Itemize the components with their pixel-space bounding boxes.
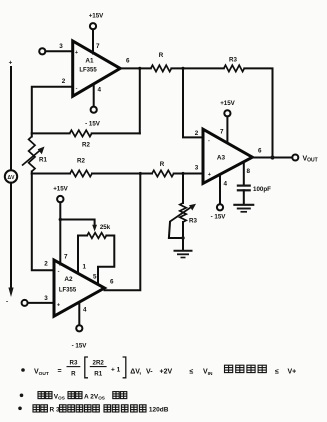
note 1 tail xyxy=(275,369,296,376)
svg-text:V+: V+ xyxy=(288,369,297,376)
wire A3 pin 2 xyxy=(183,68,203,137)
note 3 bullet xyxy=(18,407,22,411)
svg-text:≤: ≤ xyxy=(275,369,279,376)
junction A3 inverting node xyxy=(181,67,184,70)
arrow on input rail xyxy=(8,288,13,298)
svg-text:V-: V- xyxy=(146,369,153,376)
note 1 Chinese 共模电压 xyxy=(225,365,267,372)
svg-text:A3: A3 xyxy=(217,155,226,162)
svg-text:R3: R3 xyxy=(189,218,197,225)
terminal A1 V+ xyxy=(90,23,96,29)
ground (capacitor) xyxy=(233,205,254,212)
svg-text:A2: A2 xyxy=(64,276,73,283)
wire A3 pin 4 xyxy=(219,177,221,205)
svg-text:2: 2 xyxy=(44,261,48,268)
wire R to R3 xyxy=(171,67,223,69)
wire capacitor to ground xyxy=(243,190,245,204)
note 2 Chinese 调节 xyxy=(113,392,127,399)
wire top feedback line xyxy=(92,132,140,134)
svg-text:2: 2 xyxy=(195,130,199,137)
terminal A3 V+ xyxy=(224,110,230,116)
wire A2 output xyxy=(105,174,141,291)
svg-text:+15V: +15V xyxy=(220,100,235,107)
svg-text:R: R xyxy=(159,52,164,59)
terminal VOUT xyxy=(292,155,298,161)
wire 25k right lead to pin 5 xyxy=(98,236,114,285)
svg-text:6: 6 xyxy=(110,279,114,286)
svg-text:=: = xyxy=(58,368,62,375)
op-amp A1 xyxy=(73,41,121,96)
wire 25k left lead to pin 1 xyxy=(78,236,87,274)
wire R1 lower lead xyxy=(31,171,33,173)
wire A1 pin 2 xyxy=(32,87,73,134)
svg-text:R: R xyxy=(71,371,76,378)
svg-text:≤: ≤ xyxy=(190,369,194,376)
svg-text:2: 2 xyxy=(62,78,66,85)
wire A3 output xyxy=(252,157,292,159)
svg-text:R: R xyxy=(160,161,165,168)
svg-text:7: 7 xyxy=(96,43,100,50)
wire A2 pin 2 riser xyxy=(32,174,54,271)
note 2 bullet xyxy=(20,394,24,398)
svg-text:4: 4 xyxy=(83,307,87,314)
junction offset wiper branch xyxy=(59,218,62,221)
note 3 Chinese 将共模抑制比提高到 xyxy=(60,405,147,412)
svg-text:7: 7 xyxy=(64,254,68,261)
terminal A2 V- xyxy=(76,325,82,331)
svg-text:R 3: R 3 xyxy=(50,407,61,414)
potentiometer R1 xyxy=(22,137,45,172)
svg-text:R3: R3 xyxy=(70,360,78,367)
svg-text:1: 1 xyxy=(83,264,87,271)
svg-text:6: 6 xyxy=(126,58,130,65)
svg-text:25k: 25k xyxy=(100,224,111,231)
wire A2 pin 3 xyxy=(28,302,54,304)
svg-text:+ 1: + 1 xyxy=(111,366,121,373)
wire R2 to R1 node xyxy=(32,132,70,134)
potentiometer R3 (CMRR trim) xyxy=(170,203,196,222)
svg-text:R1: R1 xyxy=(94,371,102,378)
junction output feedback xyxy=(270,155,274,159)
svg-text:+: + xyxy=(57,303,60,309)
wire A3 pin 8 xyxy=(243,162,245,183)
resistor R (upper) xyxy=(151,65,172,71)
potentiometer 25k xyxy=(87,233,106,239)
wire A2 pin 4 xyxy=(78,302,80,325)
note 1 bullet xyxy=(21,368,25,372)
svg-text:R1: R1 xyxy=(39,157,47,164)
svg-text:8: 8 xyxy=(247,168,251,175)
svg-text:3: 3 xyxy=(195,165,199,172)
svg-text:+15V: +15V xyxy=(89,13,104,20)
note 2 Chinese 通过 xyxy=(68,392,82,399)
svg-text:4: 4 xyxy=(98,87,102,94)
capacitor 100pF xyxy=(237,186,251,191)
junction A1 feedback xyxy=(138,67,141,70)
svg-text:6: 6 xyxy=(258,148,262,155)
terminal A2 V+ xyxy=(57,196,63,202)
svg-text:120dB: 120dB xyxy=(149,407,169,414)
svg-text:+: + xyxy=(75,50,78,56)
svg-text:- 15V: - 15V xyxy=(72,343,88,350)
svg-text:+15V: +15V xyxy=(53,185,68,192)
svg-text:-: - xyxy=(6,299,8,306)
wire R1 upper lead xyxy=(31,133,33,136)
svg-text:3: 3 xyxy=(44,295,48,302)
svg-text:ΔV,: ΔV, xyxy=(130,369,141,376)
resistor R (lower) xyxy=(152,170,174,176)
wire A2 pin 7 xyxy=(59,202,61,264)
svg-text:LF355: LF355 xyxy=(59,288,77,294)
svg-text:VOUT: VOUT xyxy=(303,156,318,164)
svg-text:- 15V: - 15V xyxy=(211,214,227,221)
svg-text:5: 5 xyxy=(93,274,97,281)
svg-text:-: - xyxy=(208,138,210,144)
svg-text:R3: R3 xyxy=(229,57,237,64)
terminal A1 V- xyxy=(91,107,97,113)
wire lower line middle xyxy=(92,173,152,175)
svg-text:+: + xyxy=(208,172,211,178)
arrow offset wiper xyxy=(92,225,97,232)
wire left input rail lower xyxy=(10,183,12,290)
junction wiper tie xyxy=(181,236,184,239)
svg-text:+: + xyxy=(9,60,13,67)
svg-text:3: 3 xyxy=(59,43,63,50)
wire lower line to A3 pin 3 xyxy=(174,173,203,175)
source ΔV xyxy=(5,170,17,182)
svg-text:R2: R2 xyxy=(77,158,85,165)
wire left input rail upper xyxy=(10,67,12,170)
svg-text:100pF: 100pF xyxy=(253,186,271,193)
terminal A3 V- xyxy=(217,204,223,210)
note 1 formula VOUT xyxy=(34,357,213,378)
wire A1 pin 4 xyxy=(93,84,95,107)
wire R3 trim upper lead xyxy=(182,174,184,204)
note 2 Chinese 系统 xyxy=(38,392,52,399)
wire offset wiper branch xyxy=(60,220,94,227)
resistor R2 (A1 feedback) xyxy=(70,130,92,136)
svg-text:4: 4 xyxy=(224,181,228,188)
junction R3 trim node xyxy=(181,172,184,175)
op-amp A2 xyxy=(54,260,105,316)
junction A2 output node xyxy=(139,172,142,175)
svg-text:-: - xyxy=(76,86,78,92)
wire R3 trim lower lead xyxy=(182,222,184,251)
svg-text:+2V: +2V xyxy=(160,369,173,376)
wire A1 feedback riser xyxy=(139,68,141,133)
wire lower line left xyxy=(32,173,70,175)
wire A1 output to R xyxy=(120,67,151,69)
wire R3 wiper loop xyxy=(169,222,183,238)
ground (R3 trim) xyxy=(174,251,193,258)
wire A3 pin 7 xyxy=(226,116,228,143)
svg-text:ΔV: ΔV xyxy=(8,175,16,181)
terminal A2 input xyxy=(22,300,28,306)
svg-text:LF355: LF355 xyxy=(79,68,97,74)
resistor R3 (feedback) xyxy=(224,65,245,71)
note 3 Chinese 微调 xyxy=(33,405,47,412)
svg-text:A1: A1 xyxy=(85,57,94,64)
wire R3 to A3 output xyxy=(244,68,272,157)
svg-text:-: - xyxy=(58,269,60,275)
terminal A1 input xyxy=(39,48,45,54)
svg-text:R2: R2 xyxy=(82,141,90,148)
svg-text:2R2: 2R2 xyxy=(93,360,105,367)
op-amp A3 xyxy=(203,129,252,183)
resistor R2 (A2 feedback) xyxy=(70,170,92,176)
wire A1 pin 7 xyxy=(92,29,94,53)
svg-text:- 15V: - 15V xyxy=(85,120,101,127)
svg-text:7: 7 xyxy=(220,129,224,136)
wire A1 pin 3 xyxy=(45,50,72,52)
